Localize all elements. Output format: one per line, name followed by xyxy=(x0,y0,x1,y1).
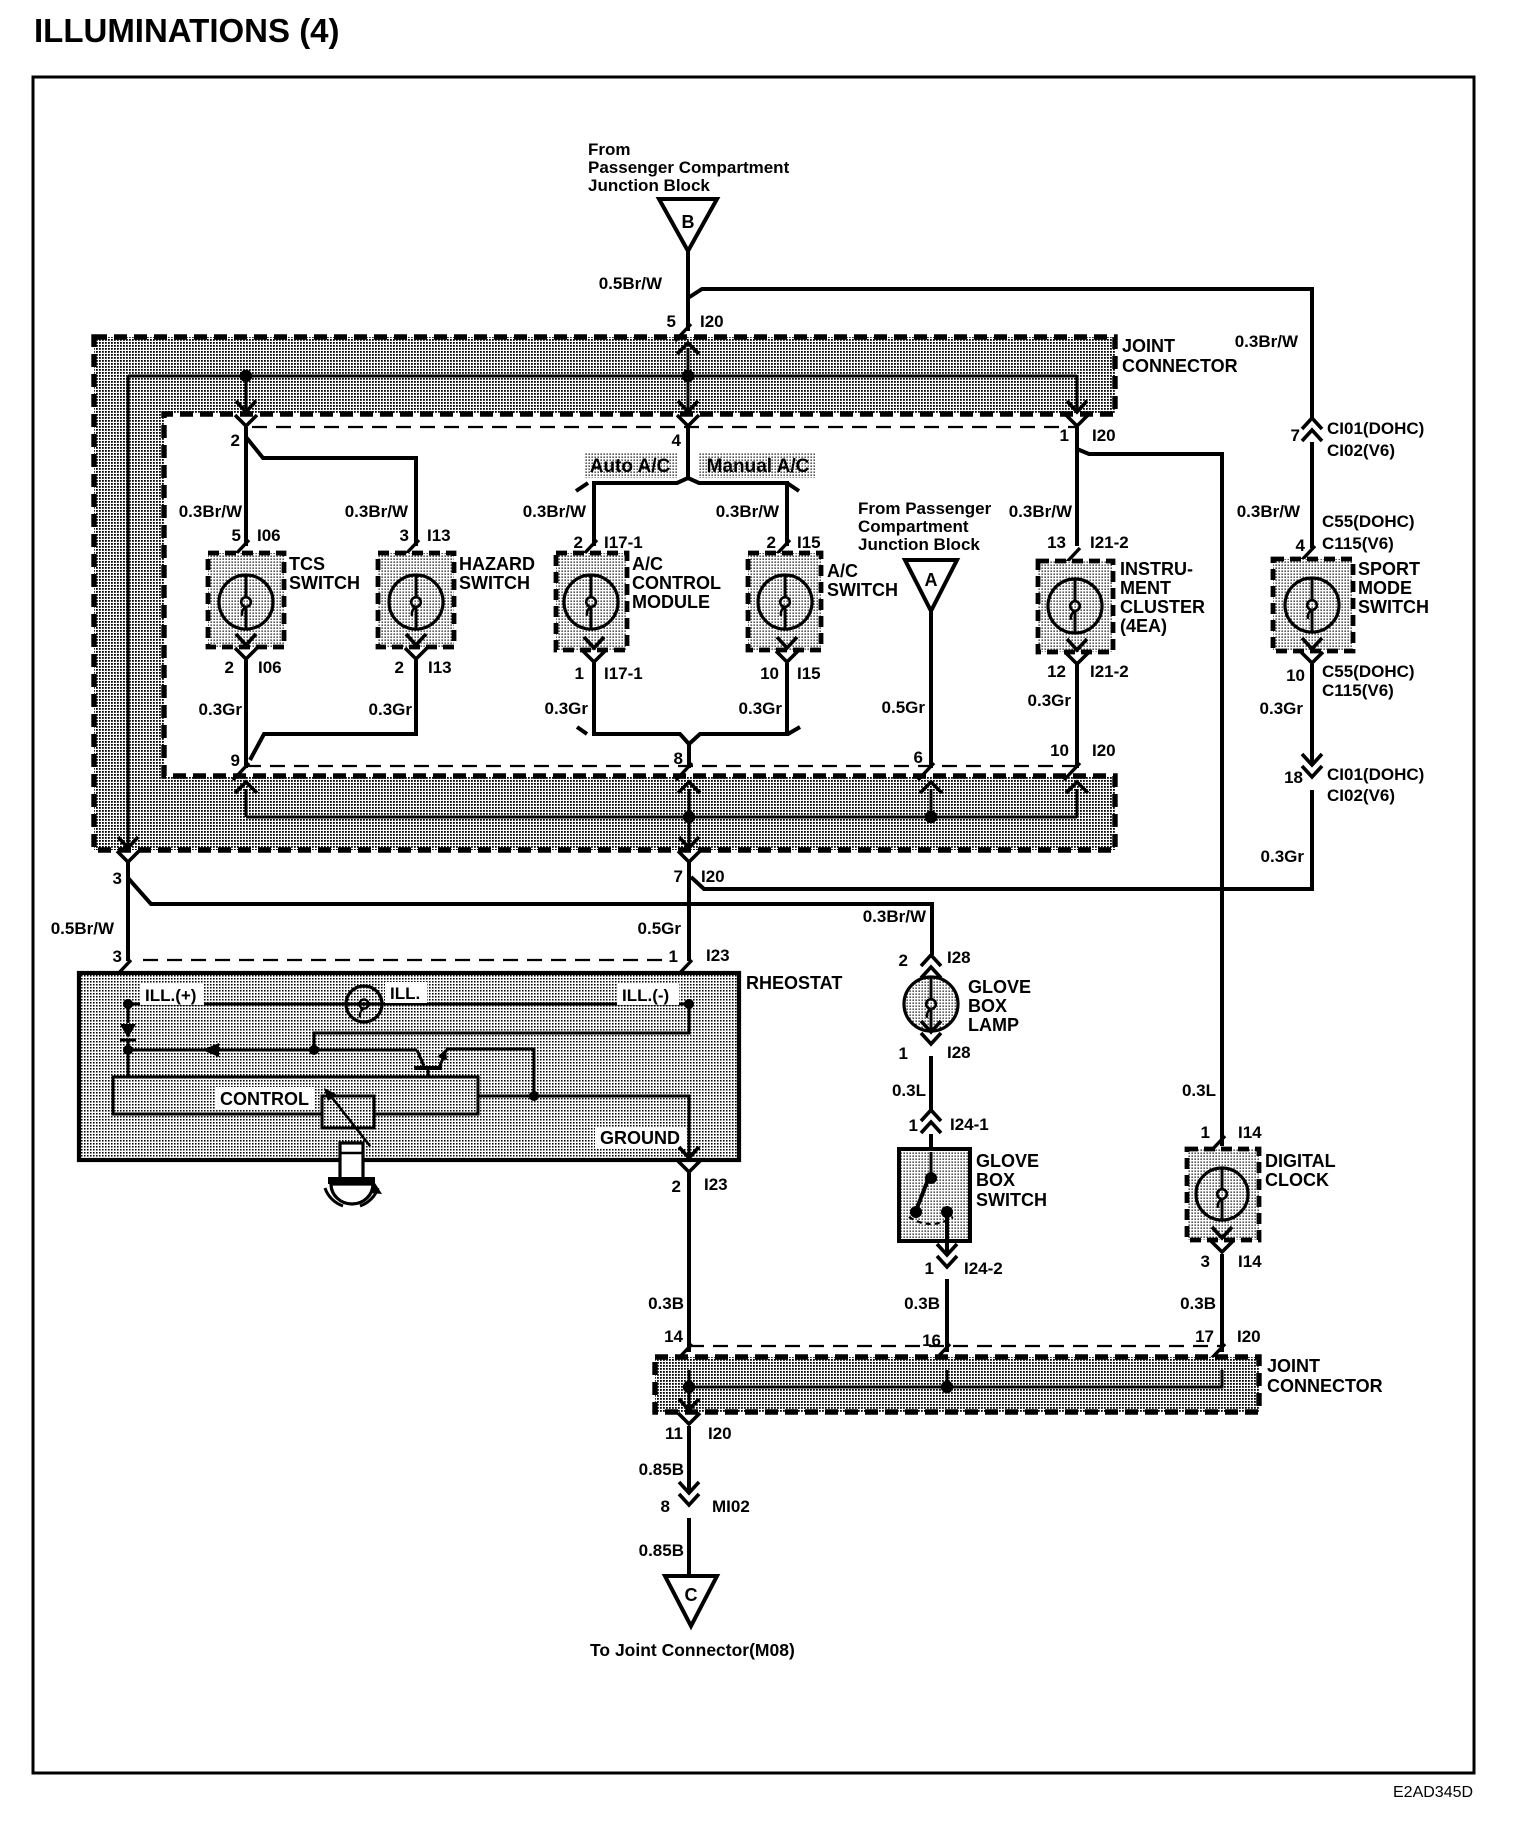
svg-text:2: 2 xyxy=(225,658,234,677)
pin 7 I20 out of joint connector xyxy=(679,837,699,848)
A/C control module lamp xyxy=(564,575,618,629)
wire pin 2 down to TCS switch xyxy=(244,427,248,546)
svg-text:Junction Block: Junction Block xyxy=(858,535,980,554)
TCS switch box xyxy=(208,553,284,647)
wire B down to joint connector pin 5 xyxy=(686,251,690,331)
wire pin10 into bottom bus xyxy=(1076,789,1079,817)
pin 3 rheostat xyxy=(115,960,131,977)
svg-text:CONTROL: CONTROL xyxy=(220,1089,309,1109)
svg-text:Auto A/C: Auto A/C xyxy=(590,456,671,477)
svg-text:From Passenger: From Passenger xyxy=(858,499,992,518)
svg-text:0.3Gr: 0.3Gr xyxy=(1261,847,1305,866)
pin 8 into joint connector xyxy=(676,763,692,780)
rheostat ILL bus wire xyxy=(128,1003,689,1006)
svg-text:SPORT: SPORT xyxy=(1358,559,1420,579)
svg-text:1: 1 xyxy=(909,1116,918,1135)
svg-text:0.3Br/W: 0.3Br/W xyxy=(716,502,780,521)
junction dot pin 6 on bottom bus xyxy=(925,811,937,823)
svg-text:2: 2 xyxy=(899,951,908,970)
junction dot at pin5/pin4 xyxy=(682,370,694,382)
digital clock box xyxy=(1187,1149,1259,1240)
label ILL.(+) xyxy=(140,984,204,1005)
wire connector to sport mode switch xyxy=(1310,442,1314,548)
pin 9 into joint connector xyxy=(233,763,249,780)
pin 10 I20 into joint connector xyxy=(1064,763,1080,780)
svg-text:3: 3 xyxy=(1201,1252,1210,1271)
label DIGITAL CLOCK xyxy=(1265,1151,1336,1190)
svg-text:0.5Br/W: 0.5Br/W xyxy=(599,274,663,293)
joint connector inner dashed line (top row pins) xyxy=(252,426,1077,428)
svg-text:HAZARD: HAZARD xyxy=(459,554,535,574)
junction dot below diode xyxy=(123,1045,133,1055)
svg-text:I20: I20 xyxy=(1237,1327,1261,1346)
svg-text:7: 7 xyxy=(1291,426,1300,445)
svg-text:A/C: A/C xyxy=(827,561,858,581)
svg-text:10: 10 xyxy=(1050,741,1069,760)
pin 6 into joint connector xyxy=(918,763,934,780)
svg-text:0.3Br/W: 0.3Br/W xyxy=(1235,332,1299,351)
svg-text:0.3L: 0.3L xyxy=(1182,1081,1216,1100)
hook left end of split xyxy=(576,483,588,491)
svg-text:I20: I20 xyxy=(701,867,725,886)
wire pin9 into bottom bus xyxy=(245,789,248,817)
wire bus to pin 2 xyxy=(245,376,248,409)
potentiometer box xyxy=(322,1096,374,1128)
wire ILL(-) to internal bus xyxy=(314,1004,689,1050)
pin 1 I14 digital clock xyxy=(1209,1136,1225,1153)
svg-text:B: B xyxy=(682,212,695,232)
bottom joint connector dashed pin line xyxy=(689,1345,1222,1347)
label From Passenger Compartment Junction Block (middle) xyxy=(858,499,992,554)
label From Passenger Compartment Junction Block (top) xyxy=(588,140,790,195)
svg-text:5: 5 xyxy=(232,526,241,545)
hook left of merge wire xyxy=(577,727,587,734)
potentiometer arrow xyxy=(324,1088,370,1146)
wire clock to pin 17 xyxy=(1220,1254,1224,1352)
label A/C CONTROL MODULE xyxy=(632,554,721,612)
svg-text:CI02(V6): CI02(V6) xyxy=(1327,786,1395,805)
pin 3 I14 digital clock xyxy=(1212,1227,1232,1238)
junction dot pin 8 on bottom bus xyxy=(683,811,695,823)
transistor in rheostat xyxy=(414,1049,447,1077)
sport mode switch lamp xyxy=(1285,578,1339,632)
svg-text:I13: I13 xyxy=(427,526,451,545)
pin 10 C55/C115 sport mode switch xyxy=(1302,638,1322,649)
svg-text:0.3Br/W: 0.3Br/W xyxy=(523,502,587,521)
svg-text:8: 8 xyxy=(674,749,683,768)
svg-text:0.5Gr: 0.5Gr xyxy=(638,919,682,938)
svg-text:11: 11 xyxy=(665,1424,683,1443)
wire bus corner to pin 1 xyxy=(1076,376,1079,409)
wire branch pin2 to hazard switch xyxy=(246,437,416,546)
pin 2 I17-1 A/C control module xyxy=(581,540,597,557)
svg-text:I06: I06 xyxy=(258,658,282,677)
svg-text:I20: I20 xyxy=(1092,741,1116,760)
label GLOVE BOX LAMP xyxy=(968,977,1031,1035)
wire A/C switch return to merge xyxy=(689,663,787,744)
label JOINT CONNECTOR (bottom) xyxy=(1267,1356,1383,1396)
svg-text:ILL.(+): ILL.(+) xyxy=(145,986,196,1005)
svg-text:0.5Gr: 0.5Gr xyxy=(882,698,926,717)
wire A/C module return to merge xyxy=(594,663,689,744)
pin 2 I06 TCS switch xyxy=(236,634,256,645)
wire TCS switch to pin 9 xyxy=(244,660,248,768)
svg-text:0.3Gr: 0.3Gr xyxy=(199,700,243,719)
svg-text:9: 9 xyxy=(231,751,240,770)
pin 10 I15 A/C switch xyxy=(777,637,797,648)
svg-text:I28: I28 xyxy=(947,948,971,967)
junction dot internal bus xyxy=(309,1045,319,1055)
svg-text:1: 1 xyxy=(669,947,678,966)
wire MI02 to triangle C xyxy=(687,1518,691,1576)
svg-text:Compartment: Compartment xyxy=(858,517,969,536)
svg-text:3: 3 xyxy=(113,947,122,966)
svg-text:To Joint Connector(M08): To Joint Connector(M08) xyxy=(590,1640,795,1660)
svg-text:18: 18 xyxy=(1284,768,1303,787)
svg-text:1: 1 xyxy=(899,1044,908,1063)
svg-text:SWITCH: SWITCH xyxy=(827,580,898,600)
svg-text:C115(V6): C115(V6) xyxy=(1322,534,1394,553)
hazard switch box xyxy=(378,553,454,647)
svg-text:JOINT: JOINT xyxy=(1267,1356,1320,1376)
svg-text:I17-1: I17-1 xyxy=(604,533,643,552)
label GROUND xyxy=(595,1127,687,1148)
label Auto A/C xyxy=(584,452,677,478)
pin 12 I21-2 instrument cluster xyxy=(1067,639,1087,650)
svg-text:JOINT: JOINT xyxy=(1122,336,1175,356)
svg-text:CLOCK: CLOCK xyxy=(1265,1170,1329,1190)
svg-text:SWITCH: SWITCH xyxy=(1358,597,1429,617)
svg-text:10: 10 xyxy=(760,664,779,683)
svg-text:4: 4 xyxy=(1296,536,1306,555)
svg-text:2: 2 xyxy=(574,533,583,552)
connector triangle B xyxy=(659,199,717,251)
glove box lamp xyxy=(904,977,958,1031)
diode in rheostat xyxy=(120,1024,136,1040)
wire pin8 into bottom bus xyxy=(688,789,691,817)
pin 2 I13 hazard switch xyxy=(406,634,426,645)
wire pin16 into bus xyxy=(946,1370,949,1387)
wire split to manual A/C branch xyxy=(688,478,787,546)
arrowhead on internal bus xyxy=(202,1043,219,1057)
wire pin 3 down to rheostat xyxy=(126,862,130,961)
pin 3 out of joint connector xyxy=(118,837,138,848)
svg-text:8: 8 xyxy=(661,1497,670,1516)
pin 2 I23 rheostat ground xyxy=(679,1147,699,1158)
svg-text:GLOVE: GLOVE xyxy=(976,1151,1039,1171)
wire sport mode return xyxy=(1310,664,1314,765)
junction dot ILL(+) xyxy=(123,999,133,1009)
svg-text:0.3Br/W: 0.3Br/W xyxy=(345,502,409,521)
svg-text:10: 10 xyxy=(1286,666,1305,685)
pin 3 I13 hazard switch xyxy=(403,540,419,557)
svg-text:ILL.: ILL. xyxy=(390,984,420,1003)
svg-text:MODULE: MODULE xyxy=(632,592,710,612)
svg-text:3: 3 xyxy=(113,869,122,888)
A/C switch box xyxy=(748,553,821,650)
svg-text:I20: I20 xyxy=(1092,426,1116,445)
svg-text:0.3Gr: 0.3Gr xyxy=(739,699,783,718)
hazard switch lamp xyxy=(389,575,443,629)
wire hazard switch return to pin 9 xyxy=(250,660,416,760)
pin 1 I24-1 glove box switch xyxy=(921,1110,941,1121)
svg-text:ILLUMINATIONS (4): ILLUMINATIONS (4) xyxy=(34,12,340,49)
pin 2 I28 glove box lamp xyxy=(921,955,941,966)
svg-text:0.3Br/W: 0.3Br/W xyxy=(179,502,243,521)
junction dot pin 16 bus xyxy=(941,1381,953,1393)
svg-text:DIGITAL: DIGITAL xyxy=(1265,1151,1336,1171)
svg-text:7: 7 xyxy=(674,867,683,886)
wire branch B to sport mode switch feed xyxy=(688,289,1312,418)
svg-text:1: 1 xyxy=(925,1259,934,1278)
svg-text:BOX: BOX xyxy=(976,1170,1015,1190)
svg-text:(4EA): (4EA) xyxy=(1120,616,1167,636)
TCS switch lamp xyxy=(219,575,273,629)
svg-text:From: From xyxy=(588,140,631,159)
wire diode to control box xyxy=(127,1040,130,1077)
A/C control module box xyxy=(556,553,627,650)
pin 16 into bottom joint connector xyxy=(934,1344,950,1361)
svg-text:SWITCH: SWITCH xyxy=(289,573,360,593)
svg-text:6: 6 xyxy=(914,748,923,767)
svg-text:17: 17 xyxy=(1195,1327,1214,1346)
svg-text:I21-2: I21-2 xyxy=(1090,662,1129,681)
svg-text:I17-1: I17-1 xyxy=(604,664,643,683)
wire pin 11 out of bus xyxy=(688,1387,691,1409)
svg-text:I14: I14 xyxy=(1238,1252,1262,1271)
svg-text:GLOVE: GLOVE xyxy=(968,977,1031,997)
wire glove lamp to glove switch xyxy=(929,1056,933,1110)
wire triangle A down to pin 6 xyxy=(929,611,933,768)
pin 1 I28 glove box lamp xyxy=(921,1021,941,1032)
digital clock lamp xyxy=(1196,1168,1248,1220)
label JOINT CONNECTOR (top) xyxy=(1122,336,1238,376)
wire branch pin3 to glove box lamp feed xyxy=(128,878,932,955)
pin 5 I20 into joint connector xyxy=(675,324,691,341)
inline connector 18 CI01/CI02 xyxy=(1302,754,1322,765)
svg-text:INSTRU-: INSTRU- xyxy=(1120,559,1193,579)
wire merge down to pin 8 xyxy=(687,743,691,768)
label A/C SWITCH xyxy=(827,561,898,600)
svg-text:I15: I15 xyxy=(797,533,821,552)
wire out of glove box switch xyxy=(945,1214,949,1255)
svg-text:CONNECTOR: CONNECTOR xyxy=(1122,356,1238,376)
label TCS SWITCH xyxy=(289,554,360,593)
wire pin 7 down to rheostat pin 1 xyxy=(687,862,691,961)
svg-text:SWITCH: SWITCH xyxy=(976,1190,1047,1210)
svg-text:CI02(V6): CI02(V6) xyxy=(1327,441,1395,460)
svg-text:0.5Br/W: 0.5Br/W xyxy=(51,919,115,938)
joint connector top bus wire xyxy=(128,375,1077,378)
svg-text:2: 2 xyxy=(672,1177,681,1196)
svg-text:LAMP: LAMP xyxy=(968,1015,1019,1035)
pin 11 I20 out of bottom joint connector xyxy=(679,1399,699,1410)
wire pin5 to bus xyxy=(687,348,690,376)
hook right end of split xyxy=(787,483,799,491)
joint connector I20 (top) grey frame xyxy=(94,337,1115,850)
svg-text:0.3Br/W: 0.3Br/W xyxy=(1237,502,1301,521)
svg-text:0.3L: 0.3L xyxy=(892,1081,926,1100)
svg-text:I28: I28 xyxy=(947,1043,971,1062)
rheostat connector dashed line I23 xyxy=(143,959,664,961)
pin 2 I15 A/C switch xyxy=(774,540,790,557)
wire glove switch to pin 16 xyxy=(945,1279,949,1352)
wire pin 1 I20 down with jog xyxy=(1075,427,1079,449)
wire cluster return to pin 10 xyxy=(1075,664,1079,768)
svg-text:0.85B: 0.85B xyxy=(639,1541,684,1560)
svg-text:I23: I23 xyxy=(704,1175,728,1194)
wire pin 4 down to A/C split xyxy=(686,427,690,478)
svg-text:1: 1 xyxy=(1060,426,1069,445)
wire sport return to pin 7 xyxy=(691,790,1312,889)
left column wire inside joint connector xyxy=(127,376,130,848)
svg-text:0.3Gr: 0.3Gr xyxy=(1260,699,1304,718)
rheostat ILL lamp xyxy=(346,986,382,1022)
svg-text:CI01(DOHC): CI01(DOHC) xyxy=(1327,419,1424,438)
wire jog to digital clock feed xyxy=(1077,449,1222,1146)
svg-text:ILL.(-): ILL.(-) xyxy=(622,986,669,1005)
svg-text:E2AD345D: E2AD345D xyxy=(1393,1784,1473,1801)
svg-text:TCS: TCS xyxy=(289,554,325,574)
svg-text:2: 2 xyxy=(231,431,240,450)
pin 1 I17-1 A/C control module xyxy=(584,637,604,648)
svg-text:C55(DOHC): C55(DOHC) xyxy=(1322,512,1415,531)
svg-text:C55(DOHC): C55(DOHC) xyxy=(1322,662,1415,681)
inline connector 7 CI01/CI02 xyxy=(1302,418,1322,429)
junction dot ILL(-) xyxy=(684,999,694,1009)
wire pin1 continues down to instrument cluster xyxy=(1075,449,1079,546)
svg-text:I15: I15 xyxy=(797,664,821,683)
svg-text:0.3Gr: 0.3Gr xyxy=(545,699,589,718)
pin 14 into bottom joint connector xyxy=(676,1344,692,1361)
pin 13 I21-2 instrument cluster xyxy=(1064,548,1080,565)
svg-text:I20: I20 xyxy=(708,1424,732,1443)
svg-text:I24-2: I24-2 xyxy=(964,1259,1003,1278)
pin 4 out of joint connector xyxy=(678,401,698,412)
svg-text:GROUND: GROUND xyxy=(600,1128,680,1148)
wire rheostat ground to pin 14 xyxy=(687,1173,691,1352)
svg-text:I24-1: I24-1 xyxy=(950,1115,989,1134)
rheostat box xyxy=(79,973,739,1160)
A/C switch lamp xyxy=(758,575,812,629)
svg-text:RHEOSTAT: RHEOSTAT xyxy=(746,973,842,993)
svg-text:2: 2 xyxy=(767,533,776,552)
wire control box to ground pin xyxy=(478,1096,689,1156)
svg-text:Junction Block: Junction Block xyxy=(588,176,710,195)
svg-text:MENT: MENT xyxy=(1120,578,1171,598)
pin 1 I20 out of joint connector xyxy=(1067,401,1087,412)
label ILL.(-) xyxy=(617,984,679,1005)
svg-text:12: 12 xyxy=(1047,662,1066,681)
svg-text:I21-2: I21-2 xyxy=(1090,533,1129,552)
instrument cluster lamp xyxy=(1048,579,1102,633)
joint connector I20 (bottom) grey band xyxy=(655,1357,1259,1412)
control box xyxy=(113,1077,478,1114)
wire bottom bus to pin 7 xyxy=(688,817,691,848)
pin 1 I23 rheostat xyxy=(676,960,692,977)
svg-text:C115(V6): C115(V6) xyxy=(1322,681,1394,700)
svg-text:CLUSTER: CLUSTER xyxy=(1120,597,1205,617)
junction dot pin 14 bus xyxy=(683,1381,695,1393)
junction dot at pin2 branch xyxy=(240,370,252,382)
pin 5 I06 TCS switch xyxy=(233,540,249,557)
instrument cluster box xyxy=(1038,561,1113,652)
svg-text:BOX: BOX xyxy=(968,996,1007,1016)
svg-text:5: 5 xyxy=(667,312,676,331)
joint connector inner dashed line (bottom row pins) xyxy=(246,765,1077,767)
connector triangle C xyxy=(665,1576,717,1626)
svg-text:3: 3 xyxy=(400,526,409,545)
rheostat internal bus with arrow xyxy=(128,1049,417,1052)
label GLOVE BOX SWITCH xyxy=(976,1151,1047,1210)
svg-text:A: A xyxy=(925,570,938,590)
svg-text:0.3B: 0.3B xyxy=(904,1294,940,1313)
knob dial xyxy=(325,1177,382,1206)
connector triangle A xyxy=(905,560,957,611)
label Manual A/C xyxy=(699,452,816,478)
pin 2 out of joint connector xyxy=(236,401,256,412)
svg-text:0.3B: 0.3B xyxy=(648,1294,684,1313)
svg-text:MI02: MI02 xyxy=(712,1497,750,1516)
svg-text:0.3Gr: 0.3Gr xyxy=(369,700,413,719)
svg-text:Passenger Compartment: Passenger Compartment xyxy=(588,158,790,177)
glove box switch contacts xyxy=(909,1152,953,1224)
svg-text:1: 1 xyxy=(575,664,584,683)
wire bus to pin 4 xyxy=(687,376,690,409)
wire pin 11 to MI02 xyxy=(687,1426,691,1493)
svg-text:0.85B: 0.85B xyxy=(639,1460,684,1479)
svg-text:I06: I06 xyxy=(257,526,281,545)
svg-text:0.3Br/W: 0.3Br/W xyxy=(1009,502,1073,521)
glove box switch box xyxy=(899,1149,970,1241)
svg-text:CONNECTOR: CONNECTOR xyxy=(1267,1376,1383,1396)
label CONTROL xyxy=(215,1087,315,1109)
sport mode switch box xyxy=(1273,559,1353,651)
svg-text:A/C: A/C xyxy=(632,554,663,574)
svg-text:16: 16 xyxy=(922,1331,941,1350)
svg-text:C: C xyxy=(685,1585,698,1605)
svg-text:0.3Gr: 0.3Gr xyxy=(1028,691,1072,710)
svg-text:I20: I20 xyxy=(700,312,724,331)
pin 1 I24-2 glove box switch xyxy=(937,1244,957,1255)
svg-text:SWITCH: SWITCH xyxy=(459,573,530,593)
svg-text:0.3B: 0.3B xyxy=(1180,1294,1216,1313)
junction dot ground bus xyxy=(529,1091,539,1101)
wire pin6 into bottom bus xyxy=(930,789,933,817)
svg-text:1: 1 xyxy=(1201,1123,1210,1142)
joint connector bottom bus wire xyxy=(246,816,1077,819)
knob stem xyxy=(340,1143,363,1179)
svg-text:MODE: MODE xyxy=(1358,578,1412,598)
svg-text:13: 13 xyxy=(1047,533,1066,552)
wire into glove box switch xyxy=(929,1134,933,1152)
svg-text:14: 14 xyxy=(664,1327,683,1346)
svg-text:4: 4 xyxy=(672,431,682,450)
bottom joint connector bus wire xyxy=(689,1370,1222,1387)
label INSTRUMENT CLUSTER (4EA) xyxy=(1120,559,1205,636)
hook right of merge wire xyxy=(788,727,800,734)
wire split to auto A/C branch xyxy=(594,478,688,546)
svg-text:2: 2 xyxy=(395,658,404,677)
label SPORT MODE SWITCH xyxy=(1358,559,1429,617)
wire transistor collector to ground bus xyxy=(446,1049,534,1096)
svg-text:CONTROL: CONTROL xyxy=(632,573,721,593)
pin 17 I20 into bottom joint connector xyxy=(1209,1344,1225,1361)
svg-text:I23: I23 xyxy=(706,946,730,965)
wire ILL(+) down to diode xyxy=(127,1004,130,1023)
label ILL. xyxy=(385,982,427,1003)
label HAZARD SWITCH xyxy=(459,554,535,593)
